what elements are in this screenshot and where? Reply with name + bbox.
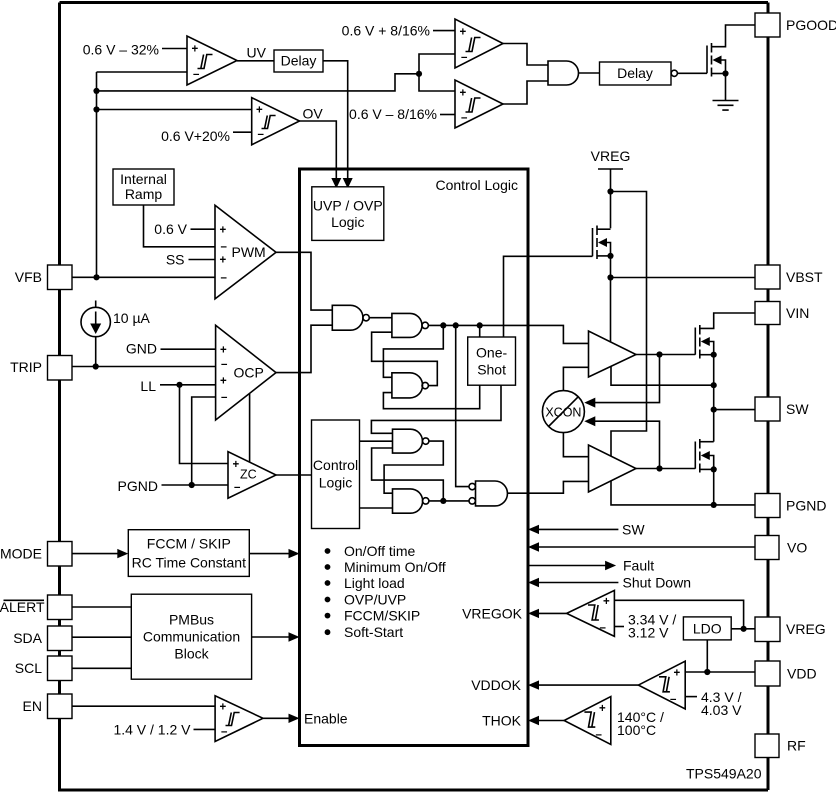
arrowhead into UVP/OVP logic (from UV delay) <box>343 178 353 189</box>
svg-text:+: + <box>220 225 227 237</box>
svg-text:–: – <box>234 482 241 494</box>
power rail VREG symbol <box>598 168 623 170</box>
wire OV output down to UVP/OVP logic <box>300 121 337 180</box>
transistor Q1 PGOOD pulldown MOSFET <box>707 25 755 77</box>
arrowhead THOK <box>528 716 539 725</box>
svg-text:Control: Control <box>313 457 358 473</box>
block LDO <box>683 617 731 640</box>
wire SDA to PMBus block <box>72 636 131 638</box>
driver lower (low-side gate driver) <box>589 445 637 492</box>
wire SW node to SW pin <box>714 409 755 411</box>
wire SCL to PMBus block <box>72 667 131 669</box>
block Internal Ramp <box>113 169 174 205</box>
wire PWM plus input (0.6V) <box>191 228 216 230</box>
svg-text:+: + <box>603 596 610 608</box>
svg-text:Light load: Light load <box>344 575 405 591</box>
svg-text:Block: Block <box>174 646 209 662</box>
bullet Minimum On/Off <box>325 564 331 570</box>
svg-text:3.12 V: 3.12 V <box>628 625 669 641</box>
bubble NAND1 output <box>363 315 369 321</box>
svg-text:–: – <box>221 241 228 253</box>
bubble NAND2 output <box>422 322 428 328</box>
comparator THOK (left pointing) <box>564 697 611 745</box>
comparator B (0.6V-8/16%) <box>455 80 503 128</box>
svg-text:Logic: Logic <box>319 475 352 491</box>
svg-text:SCL: SCL <box>15 660 42 676</box>
svg-text:4.03 V: 4.03 V <box>701 702 742 718</box>
svg-text:–: – <box>258 129 265 141</box>
wire node to comparator A minus <box>419 54 455 74</box>
wire THOK into control logic <box>537 720 564 722</box>
svg-text:FCCM / SKIP: FCCM / SKIP <box>147 536 231 552</box>
block FCCM / SKIP RC Time Constant <box>128 530 249 577</box>
junction VFB/OV node <box>93 106 99 112</box>
gate AND (PGOOD window) <box>548 61 579 85</box>
bullet Light load <box>325 580 331 586</box>
wire OCP plus input (GND) <box>161 348 216 350</box>
svg-text:+: + <box>233 459 240 471</box>
wire VREG rail down <box>610 169 612 228</box>
wire ALERT to PMBus block <box>72 606 131 608</box>
junction SW/driver return <box>711 382 717 388</box>
wire UV output to Delay <box>237 60 274 62</box>
wire VREG rail to lower driver supply <box>611 192 647 457</box>
arrowhead Shut Down <box>528 578 539 587</box>
svg-text:+: + <box>220 702 227 714</box>
wire NAND6 output to AND5 input <box>429 500 469 502</box>
junction LDO input/VDD <box>704 669 710 675</box>
svg-text:XCON: XCON <box>545 406 581 420</box>
svg-text:RC Time Constant: RC Time Constant <box>132 555 246 571</box>
svg-text:–: – <box>596 729 603 741</box>
svg-text:VO: VO <box>787 540 807 556</box>
wire Delay to PGOOD pulldown gate <box>677 72 707 74</box>
comparator OCP <box>216 325 276 420</box>
wire comparator B minus input <box>440 114 455 116</box>
svg-text:VBST: VBST <box>786 269 823 285</box>
svg-text:+: + <box>220 255 227 267</box>
junction LDO/VREG sense <box>741 626 747 632</box>
wire UV comparator minus input <box>97 71 188 73</box>
arrowhead Fault <box>605 561 616 570</box>
svg-text:–: – <box>461 112 468 124</box>
wire One-Shot input from NAND2 bus <box>479 325 481 337</box>
svg-text:VDD: VDD <box>787 666 817 682</box>
svg-text:ZC: ZC <box>240 468 257 482</box>
svg-text:10 µA: 10 µA <box>113 310 151 326</box>
wire comparator A plus input <box>433 30 455 32</box>
svg-text:0.6 V: 0.6 V <box>154 221 187 237</box>
wire NAND4 output cross to NAND6 input <box>384 441 443 493</box>
svg-text:Shot: Shot <box>477 362 506 378</box>
svg-text:+: + <box>256 105 263 117</box>
wire TRIP to OCP minus <box>72 366 216 368</box>
current source 10uA stub <box>95 301 97 308</box>
wire comparator A output to AND gate <box>503 44 548 66</box>
gate AND5 (low-side drive) <box>476 481 508 506</box>
pin box SDA <box>48 626 73 651</box>
svg-text:PMBus: PMBus <box>169 612 214 628</box>
svg-text:+: + <box>599 703 606 715</box>
wire Q4 source to PGND <box>713 469 715 505</box>
svg-text:Ramp: Ramp <box>125 186 163 202</box>
arrowhead into UVP/OVP logic (from OV) <box>331 178 341 189</box>
junction NAND2 out to NAND3 cross <box>440 322 446 328</box>
bullet OVP/UVP <box>325 597 331 603</box>
junction PGND/OCP minus <box>189 482 195 488</box>
wire Shut Down into control logic <box>537 582 618 584</box>
wire VBST node to VBST pin <box>611 277 756 279</box>
block PMBus Communication Block <box>131 594 251 679</box>
wire NAND1 to NAND2 <box>369 317 392 319</box>
svg-text:UV: UV <box>247 45 267 61</box>
wire LDO input from VDD <box>706 640 708 672</box>
transistor Q3 high-side power MOSFET <box>695 313 755 359</box>
gate NAND2 (latch upper) <box>392 313 422 337</box>
bubble NAND4 output <box>423 438 429 444</box>
wire VFB to upper comparators pair <box>97 74 420 91</box>
wire comparator B output to AND gate <box>503 81 548 104</box>
svg-text:Fault: Fault <box>623 558 654 574</box>
wire LL to OCP third input <box>160 384 216 386</box>
wire upper driver output to high-side gate <box>636 354 695 356</box>
arrowhead enable into control logic <box>289 714 300 723</box>
svg-text:+: + <box>460 27 467 39</box>
wire enable comparator minus input <box>194 728 216 730</box>
gate NAND3 (latch lower) <box>392 373 423 398</box>
gate NAND6 (lower gate drive logic) <box>393 489 423 513</box>
svg-text:100°C: 100°C <box>617 722 656 738</box>
pin box SW <box>755 397 780 421</box>
wire ZC output to control logic block <box>276 474 312 476</box>
svg-text:THOK: THOK <box>482 713 522 729</box>
wire PMBus to control logic <box>252 636 290 638</box>
wire EN to enable comparator <box>72 705 215 707</box>
comparator VREGOK (left pointing) <box>567 590 615 636</box>
wire NAND6 output cross to NAND4 third input <box>372 448 444 501</box>
bullet On/Off time <box>325 548 331 554</box>
wire OCP to ZC bias link <box>249 394 251 462</box>
junction upper driver output <box>656 351 662 357</box>
comparator A (0.6V+8/16%) <box>455 19 503 68</box>
svg-text:VREG: VREG <box>591 148 631 164</box>
current source 10uA <box>81 307 110 336</box>
block Delay (UV path) <box>274 50 323 72</box>
comparator ZC <box>228 452 276 499</box>
svg-text:OVP/UVP: OVP/UVP <box>344 592 406 608</box>
svg-text:UVP / OVP: UVP / OVP <box>313 198 383 214</box>
svg-text:VDDOK: VDDOK <box>471 677 521 693</box>
junction LL node <box>176 382 182 388</box>
junction Q1 source/body <box>722 70 728 76</box>
svg-text:SW: SW <box>622 521 645 537</box>
junction NAND2 out to AND5 <box>453 322 459 328</box>
svg-text:–: – <box>221 392 228 404</box>
wire lower driver output to XCON lower arrow <box>594 421 660 468</box>
svg-text:MODE: MODE <box>0 546 42 562</box>
svg-text:+: + <box>220 376 227 388</box>
svg-text:–: – <box>670 694 677 706</box>
bullet Soft-Start <box>325 629 331 635</box>
arrowhead into FCCM/SKIP <box>117 549 128 558</box>
transistor Q4 low-side power MOSFET <box>695 439 713 473</box>
bullet FCCM/SKIP <box>325 613 331 619</box>
svg-text:–: – <box>461 52 468 64</box>
wire One-Shot output to NAND4 first input <box>371 385 501 433</box>
svg-text:Communication: Communication <box>143 629 240 645</box>
svg-text:–: – <box>221 726 228 738</box>
transistor Q2 VREG boost switch <box>593 226 611 260</box>
wire cross-coupling NAND2 out to NAND3 input <box>383 325 443 377</box>
pin box TRIP <box>48 356 73 381</box>
bubble NAND6 output <box>423 498 429 504</box>
wire VDDOK into control logic <box>537 684 638 686</box>
comparator PWM <box>215 205 276 299</box>
svg-text:0.6 V – 32%: 0.6 V – 32% <box>83 42 159 58</box>
wire One-Shot output to NAND3 lower input <box>383 385 479 409</box>
svg-text:1.4 V / 1.2 V: 1.4 V / 1.2 V <box>113 722 191 738</box>
wire OV minus input <box>233 131 252 133</box>
junction Q3 source/body <box>711 352 717 358</box>
wire AND5 output to lower driver <box>508 481 589 493</box>
svg-text:SW: SW <box>786 401 809 417</box>
arrowhead into XCON lower <box>584 416 595 426</box>
arrowhead PMBus into control logic <box>289 632 300 641</box>
circle XCON crossover control <box>542 391 584 433</box>
wire control logic to NAND6 second input <box>360 507 393 509</box>
wire One-Shot output up to VREG pass gate <box>504 256 593 337</box>
svg-text:+: + <box>192 44 199 56</box>
junction TRIP/current source <box>93 363 99 369</box>
svg-text:GND: GND <box>126 341 157 357</box>
wire OCP fourth input to PGND net <box>192 397 216 485</box>
svg-text:Internal: Internal <box>120 171 167 187</box>
wire Delay output down to UVP/OVP logic <box>323 61 348 180</box>
junction comparator pair input node <box>416 71 422 77</box>
svg-text:VREG: VREG <box>786 621 826 637</box>
bubble AND5 input 1 <box>469 483 475 489</box>
wire Q1 source to ground <box>725 74 727 101</box>
arrowhead FCCM into control logic <box>289 549 300 558</box>
svg-text:LL: LL <box>140 378 156 394</box>
pin box PGOOD <box>755 13 780 37</box>
svg-text:VFB: VFB <box>15 269 42 285</box>
ground symbol <box>713 101 739 111</box>
wire current source to TRIP net <box>95 337 97 367</box>
wire VREGOK into control logic <box>537 612 567 614</box>
wire VO feedback into control logic <box>537 546 755 548</box>
svg-text:PGND: PGND <box>118 478 158 494</box>
svg-text:–: – <box>600 622 607 634</box>
arrowhead VREGOK <box>528 609 539 618</box>
wire node to comparator B plus <box>419 74 455 91</box>
wire Internal Ramp to PWM second input <box>144 205 216 247</box>
pin box EN <box>48 694 73 719</box>
arrowhead VO into control logic <box>528 542 539 551</box>
svg-text:Soft-Start: Soft-Start <box>344 624 403 640</box>
svg-text:PGOOD: PGOOD <box>786 17 836 33</box>
svg-text:–: – <box>221 359 228 371</box>
wire SW feedback into control logic <box>537 528 618 530</box>
wire OCP output into control logic <box>276 325 332 372</box>
svg-text:FCCM/SKIP: FCCM/SKIP <box>344 608 420 624</box>
arrowhead VDDOK <box>528 680 539 689</box>
wire lower driver input from XCON bottom <box>563 433 588 457</box>
svg-text:On/Off time: On/Off time <box>344 543 416 559</box>
junction PGND node <box>711 502 717 508</box>
svg-text:ALERT: ALERT <box>0 599 45 615</box>
svg-text:+: + <box>460 88 467 100</box>
svg-text:RF: RF <box>787 738 806 754</box>
pin box ALERT <box>48 595 73 620</box>
svg-text:Control Logic: Control Logic <box>436 177 519 193</box>
wire LL node down to ZC plus <box>180 385 229 464</box>
svg-text:–: – <box>221 272 228 284</box>
svg-text:PGND: PGND <box>786 498 826 514</box>
svg-text:TPS549A20: TPS549A20 <box>686 766 762 782</box>
pin box RF <box>755 734 779 758</box>
pin box VBST <box>755 265 780 289</box>
wire NAND3 output cross-coupling to NAND2 input <box>372 332 438 385</box>
wire upper driver input from XCON <box>563 367 588 390</box>
junction VFB/UV node <box>93 88 99 94</box>
arrowhead SW into control logic <box>528 525 539 534</box>
svg-text:Delay: Delay <box>281 53 317 69</box>
wire MODE to FCCM/SKIP block <box>72 553 119 555</box>
svg-text:PWM: PWM <box>232 244 266 260</box>
svg-text:VIN: VIN <box>786 305 809 321</box>
svg-text:Shut Down: Shut Down <box>623 575 691 591</box>
svg-text:EN: EN <box>23 698 42 714</box>
wire SW node vertical <box>713 355 715 442</box>
wire VREGOK minus stub <box>614 626 624 628</box>
wire FCCM/SKIP to control logic <box>249 553 290 555</box>
pin box VO <box>755 536 779 560</box>
junction NAND2 out to One-Shot <box>477 322 483 328</box>
svg-text:Delay: Delay <box>617 65 653 81</box>
wire NAND2 bus down to AND5 first input <box>456 325 469 486</box>
svg-text:VREGOK: VREGOK <box>462 605 523 621</box>
wire lower driver output to low-side gate <box>636 468 695 470</box>
junction lower driver output <box>656 465 662 471</box>
junction VBST node <box>607 274 613 280</box>
junction NAND4/NAND6 outputs <box>440 498 446 504</box>
wire VDDOK plus from VDD pin <box>685 671 756 673</box>
svg-text:–: – <box>193 69 200 81</box>
wire NAND2 output bus to driver logic <box>428 325 588 343</box>
wire Fault output <box>528 565 607 567</box>
wire enable comparator to control logic <box>263 717 290 719</box>
block Delay (PGOOD path) <box>600 62 672 85</box>
wire UV plus input <box>162 48 187 50</box>
svg-text:TRIP: TRIP <box>10 359 42 375</box>
svg-text:+: + <box>220 345 227 357</box>
svg-text:0.6 V+20%: 0.6 V+20% <box>161 128 230 144</box>
svg-text:OV: OV <box>303 106 324 122</box>
svg-text:Enable: Enable <box>304 710 348 726</box>
block One-Shot <box>468 337 516 385</box>
wire PGND to ZC minus <box>162 484 229 486</box>
block control logic (inner) <box>312 420 360 529</box>
pin box PGND <box>755 494 780 518</box>
svg-text:0.6 V – 8/16%: 0.6 V – 8/16% <box>349 106 437 122</box>
wire Q2 source to VBST node <box>610 256 612 343</box>
wire VDDOK minus stub <box>685 696 697 698</box>
wire PWM third input (SS) <box>189 259 216 261</box>
comparator enable <box>215 696 263 742</box>
wire AND output to Delay <box>579 72 600 74</box>
wire lower driver return to PGND <box>611 481 755 505</box>
svg-text:One-: One- <box>476 345 507 361</box>
gate NAND1 (PWM/OCP input) <box>332 305 363 330</box>
driver upper (high-side gate driver) <box>589 331 637 377</box>
svg-text:Minimum On/Off: Minimum On/Off <box>344 559 446 575</box>
svg-text:SDA: SDA <box>13 630 42 646</box>
bubble AND5 input 2 <box>469 498 475 504</box>
wire VFB to OV comparator plus <box>97 109 252 111</box>
block UVP/OVP Logic <box>312 187 384 241</box>
wire VFB to PWM minus input <box>72 276 215 278</box>
junction Q2 source/body <box>607 253 613 259</box>
junction VFB node <box>93 274 99 280</box>
inverter bubble on Delay output <box>671 70 677 76</box>
pin box VFB <box>48 265 73 290</box>
wire LDO to VREG pin <box>731 628 755 630</box>
junction Q4 source/body <box>711 466 717 472</box>
wire control logic to NAND4 second input <box>360 440 393 442</box>
wire upper driver output to XCON upper arrow <box>594 355 660 403</box>
wire VFB net vertical <box>96 72 98 277</box>
gate NAND4 (upper gate drive logic) <box>393 429 423 453</box>
wire upper driver return to SW node <box>611 366 714 385</box>
svg-text:LDO: LDO <box>693 620 722 636</box>
pin box VDD <box>755 661 780 686</box>
wire VREGOK plus input from VREG rail <box>614 600 743 629</box>
comparator OV <box>252 98 300 145</box>
pin box SCL <box>48 656 73 681</box>
wire PWM output into control logic <box>276 252 332 310</box>
arrowhead into XCON upper <box>584 398 595 408</box>
svg-text:+: + <box>674 668 681 680</box>
svg-text:SS: SS <box>166 252 185 268</box>
junction VREG rail split <box>607 188 613 194</box>
junction SW pin branch <box>711 407 717 413</box>
svg-text:OCP: OCP <box>234 365 264 381</box>
pin box VREG <box>755 617 780 642</box>
pin box VIN <box>755 302 780 325</box>
pin box MODE <box>48 542 73 567</box>
control logic outer box <box>300 169 529 746</box>
svg-text:Logic: Logic <box>331 214 364 230</box>
comparator UV <box>187 36 237 85</box>
svg-text:0.6 V + 8/16%: 0.6 V + 8/16% <box>342 23 430 39</box>
comparator VDDOK (left pointing) <box>638 661 685 709</box>
bubble NAND3 output <box>422 382 428 388</box>
